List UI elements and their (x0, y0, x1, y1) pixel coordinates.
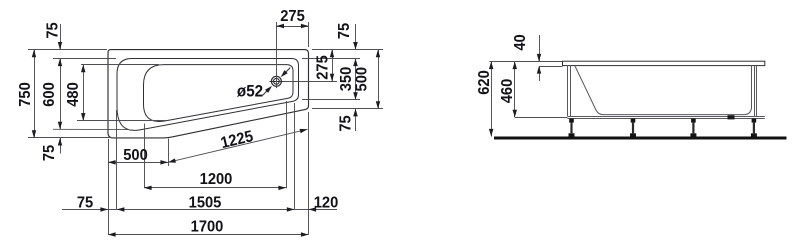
svg-text:275: 275 (314, 55, 332, 80)
svg-text:75: 75 (44, 22, 62, 39)
svg-text:1200: 1200 (200, 170, 233, 188)
svg-text:500: 500 (353, 67, 371, 92)
svg-text:620: 620 (475, 70, 493, 95)
svg-text:40: 40 (511, 34, 529, 50)
svg-text:460: 460 (498, 79, 516, 104)
svg-text:1505: 1505 (189, 194, 222, 212)
svg-text:75: 75 (337, 115, 355, 132)
svg-text:600: 600 (40, 82, 58, 107)
svg-text:75: 75 (335, 22, 353, 39)
svg-text:1700: 1700 (191, 218, 224, 236)
svg-text:75: 75 (77, 194, 94, 212)
svg-text:120: 120 (314, 194, 339, 212)
svg-text:750: 750 (16, 82, 34, 107)
svg-text:75: 75 (40, 144, 58, 161)
svg-text:ø52: ø52 (237, 83, 263, 101)
svg-text:275: 275 (280, 7, 305, 25)
svg-text:480: 480 (64, 82, 82, 107)
svg-text:500: 500 (123, 146, 148, 164)
